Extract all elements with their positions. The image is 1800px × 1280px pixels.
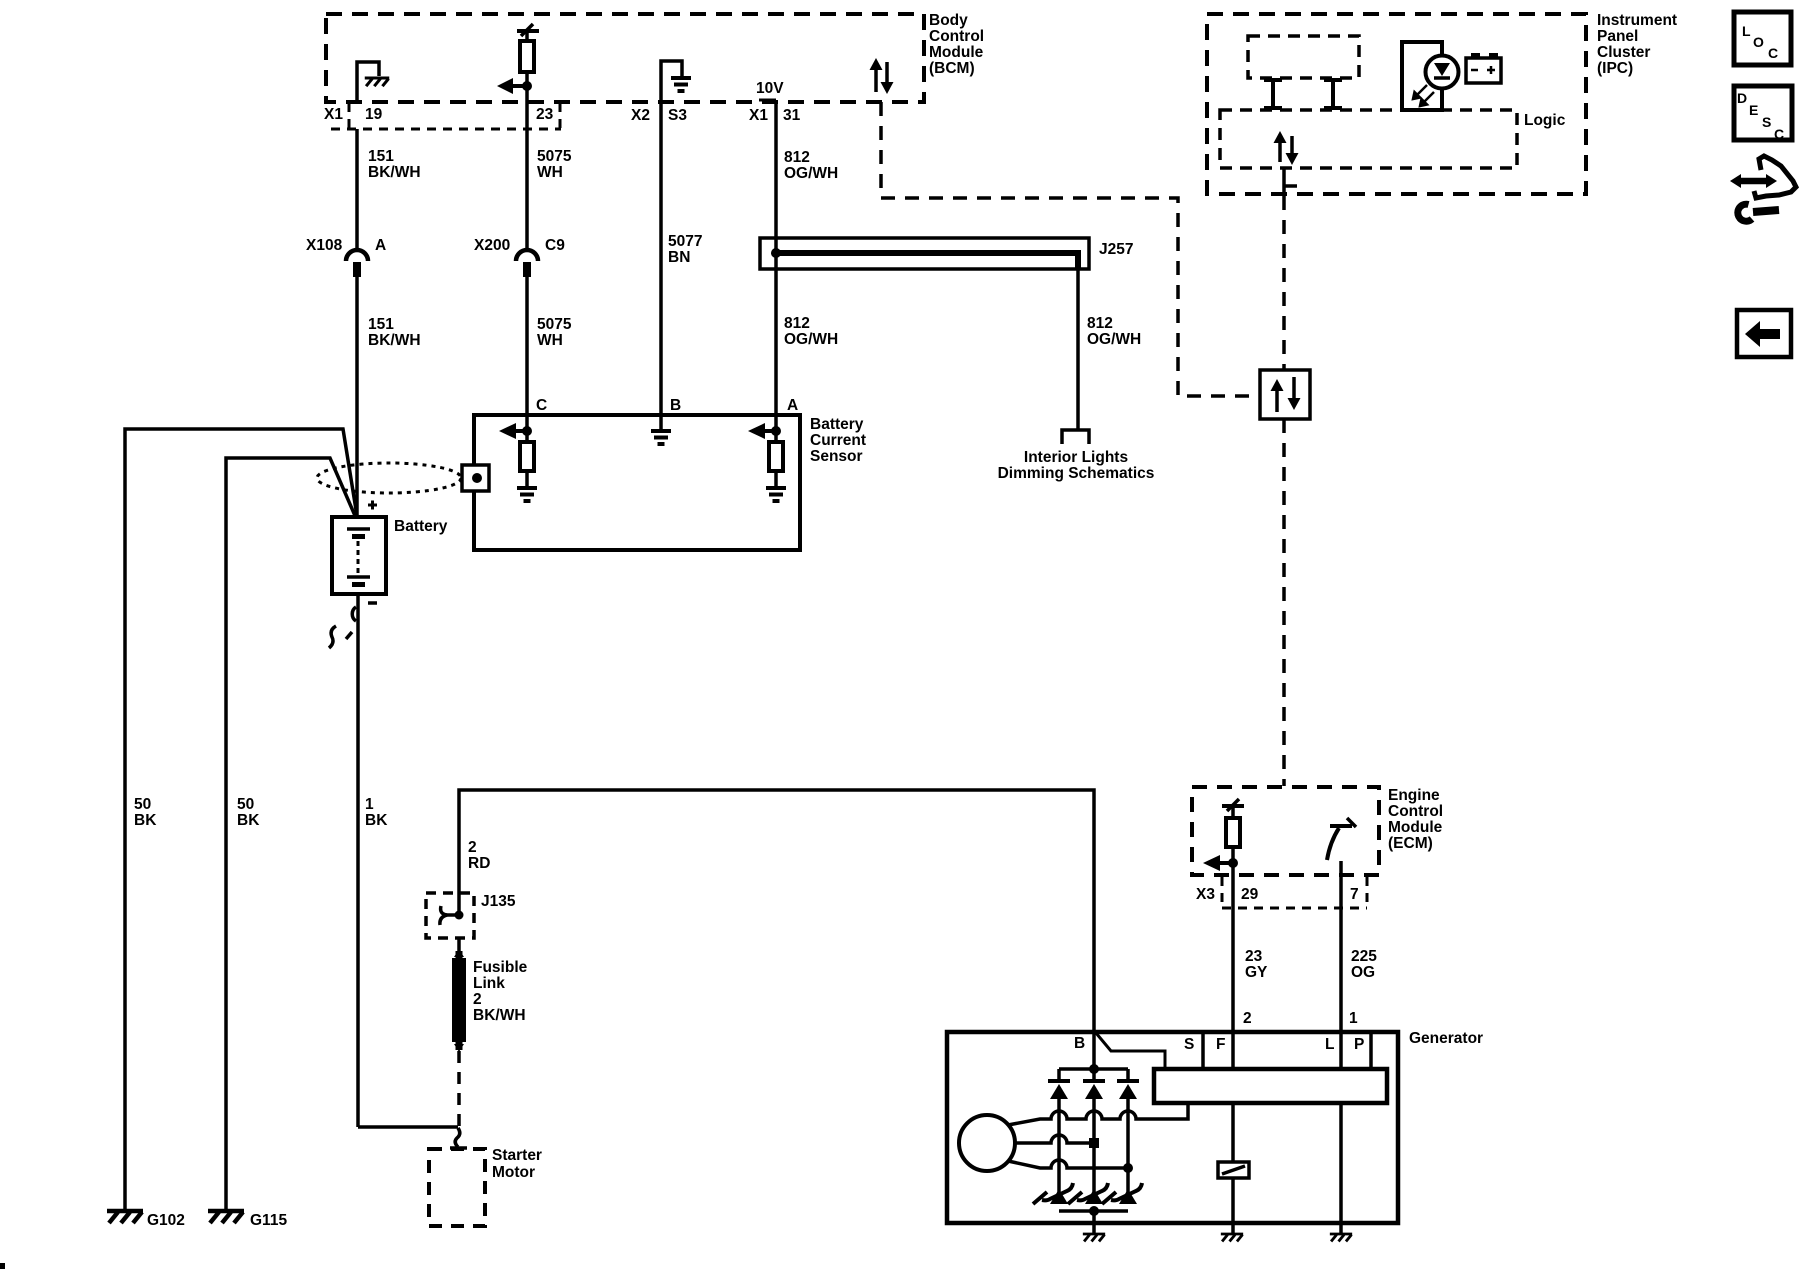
svg-text:J135: J135 [481,893,516,910]
page speck [0,1263,5,1269]
P stub [1369,1032,1373,1069]
svg-text:2: 2 [473,991,482,1008]
svg-text:RD: RD [468,855,490,872]
wire 812 OG/WH (J257 to interior lights) [1076,269,1080,430]
svg-text:O: O [1753,34,1764,50]
stator phase 2 winding line [1015,1135,1094,1143]
svg-text:29: 29 [1241,886,1259,903]
stator phase 3 winding line [1008,1160,1128,1168]
svg-text:G102: G102 [147,1212,185,1229]
dashed wire fusible link to starter [457,1051,461,1127]
svg-text:C: C [1774,126,1784,142]
splice J135 dashed box [426,893,474,938]
svg-text:31: 31 [783,107,801,124]
battery icon (IPC) [1466,53,1501,83]
terminal labels C B A [536,397,798,414]
dashed wire data box to ECM [1282,419,1286,786]
rotor circle [959,1115,1015,1171]
rectifier bottom rail [1059,1209,1128,1213]
clip marks on battery negative wire [329,607,356,648]
svg-text:50: 50 [237,796,254,813]
svg-text:BK: BK [237,812,260,829]
svg-text:Starter: Starter [492,1147,542,1164]
svg-text:OG/WH: OG/WH [784,165,838,182]
svg-text:P: P [1354,1036,1364,1053]
svg-text:Engine: Engine [1388,787,1440,804]
svg-text:F: F [1216,1036,1225,1053]
ECM label [1388,787,1443,852]
wire 5077 BN (BCM S3 to sensor B) [659,102,663,416]
Engine Control Module (ECM) dashed box [1192,787,1379,875]
svg-text:A: A [787,397,798,414]
svg-text:Sensor: Sensor [810,448,863,465]
sensor label [810,416,866,465]
B internal switch link to regulator [1096,1033,1165,1069]
svg-text:23: 23 [1245,948,1263,965]
ground (BCM pin 19 internal) [357,62,389,102]
bidirectional arrows (IPC logic) [1274,131,1299,165]
junction at bottom rail [1089,1206,1099,1216]
label 50 BK right [237,796,260,829]
svg-text:2: 2 [1243,1010,1252,1027]
label 812 OG/WH upper [784,149,838,182]
svg-text:A: A [375,237,386,254]
diagnostic car icon [1730,156,1796,221]
svg-text:L: L [1742,23,1751,39]
diode 1 bottom (avalanche) [1033,1183,1073,1204]
sensor B branch: ground [651,416,671,444]
svg-text:S: S [1184,1036,1194,1053]
svg-text:Current: Current [810,432,866,449]
phase 3 junction [1123,1163,1133,1173]
IPC output wire stub [1284,168,1297,196]
indicator lamp housing [1402,42,1442,110]
connector pin labels row [324,106,801,124]
svg-text:WH: WH [537,332,563,349]
label 225 OG [1351,948,1377,981]
current sensor clamp dashed ellipse [317,463,461,493]
label 812 OG/WH lower-left [784,315,838,348]
svg-text:1: 1 [365,796,374,813]
label 151 BK/WH upper [368,148,421,181]
connector X200 C9 (inline) [516,250,538,277]
label 151 BK/WH lower [368,316,421,349]
svg-text:OG: OG [1351,964,1375,981]
svg-text:E: E [1749,102,1758,118]
svg-text:Instrument: Instrument [1597,12,1677,29]
connector X108 A (inline) [346,250,368,277]
dashed wire IPC to data box [1282,196,1286,369]
Logic dashed box [1220,110,1517,168]
svg-text:Cluster: Cluster [1597,44,1650,61]
J257 bus bar [776,253,1078,270]
svg-text:Dimming Schematics: Dimming Schematics [998,465,1155,482]
fusible link label [473,959,528,1024]
Starter Motor dashed box [429,1149,485,1226]
sensor clamp connector square [462,465,489,491]
wire 151 BK/WH (BCM 19 to X108) [355,129,359,249]
label 5075 WH upper [537,148,572,181]
svg-text:X3: X3 [1196,886,1215,903]
Battery Current Sensor box [474,415,800,550]
svg-text:10V: 10V [756,80,784,97]
label 23 GY [1245,948,1268,981]
terminal labels B S F L P [1074,1035,1364,1053]
voltage regulator block [1154,1069,1387,1103]
svg-text:G115: G115 [250,1212,287,1229]
ground G115 [208,1211,244,1223]
starter motor terminal tick [450,1146,467,1150]
svg-text:Logic: Logic [1524,112,1566,129]
IPC connector post left [1264,80,1282,108]
arrow + junction at ECM resistor [1203,855,1238,871]
wire 2 RD generator B+ feed [459,790,1094,1032]
svg-text:X200: X200 [474,237,510,254]
svg-text:Module: Module [929,44,984,61]
squiggle lead to starter motor [455,1128,460,1147]
S stub [1201,1032,1205,1069]
svg-text:19: 19 [365,106,383,123]
svg-text:50: 50 [134,796,151,813]
BCM label [929,12,984,77]
fusible link 2 BK/WH [452,949,466,1052]
stator phase 1 winding line [1008,1103,1188,1125]
svg-text:7: 7 [1350,886,1359,903]
B wire into rectifier [1092,1032,1096,1069]
X108 labels [306,237,386,254]
svg-text:151: 151 [368,148,394,165]
off-page bracket (interior lights) [1062,430,1089,444]
resistor (BCM internal, pin 23) [517,24,539,102]
label 5075 WH lower [537,316,572,349]
ground G102 [107,1211,143,1223]
svg-text:WH: WH [537,164,563,181]
battery + sign [368,501,377,510]
battery [332,517,386,594]
label 2 RD [468,839,490,872]
svg-text:C: C [536,397,547,414]
wire 50 BK to G115 [226,458,356,1210]
IPC connector post right [1324,80,1342,108]
Generator box [947,1032,1398,1223]
wire 23 GY (ECM 29 to generator F) [1231,875,1235,1069]
svg-text:(ECM): (ECM) [1388,835,1433,852]
svg-text:Control: Control [929,28,984,45]
svg-text:Link: Link [473,975,505,992]
svg-text:X1: X1 [324,106,343,123]
svg-text:23: 23 [536,106,554,123]
label 812 OG/WH right [1087,315,1141,348]
label 5077 BN [668,233,702,266]
svg-text:Motor: Motor [492,1164,535,1181]
svg-text:OG/WH: OG/WH [1087,331,1141,348]
label 50 BK left [134,796,157,829]
ground (BCM pin S3 internal) [661,61,691,102]
back arrow icon box [1737,310,1791,357]
B ground wire [1092,1211,1096,1233]
ground below F [1221,1234,1243,1241]
svg-text:Interior Lights: Interior Lights [1024,449,1128,466]
junction on bus [771,248,781,258]
svg-text:812: 812 [784,315,810,332]
wire J135 to fusible link [457,938,461,956]
wire L through generator [1339,1069,1343,1233]
wire 812 OG/WH (BCM 31 through J257 to sensor A) [774,100,778,416]
10V node (BCM pin 31) [756,80,784,100]
wire 225 OG (ECM 7 to generator L) [1339,875,1343,1069]
battery - sign [368,601,377,605]
svg-text:X108: X108 [306,237,343,254]
svg-text:C9: C9 [545,237,565,254]
svg-text:S: S [1762,114,1771,130]
svg-text:GY: GY [1245,964,1268,981]
wire F through generator [1231,1069,1235,1233]
bidirectional arrows (BCM serial data) [870,58,894,94]
svg-text:151: 151 [368,316,394,333]
data transfer box [1260,370,1310,419]
arrow + junction at BCM resistor [497,78,532,94]
LOC icon box [1734,12,1791,65]
svg-text:BK: BK [365,812,388,829]
resistor (ECM internal, pin 29) [1222,799,1244,875]
svg-text:5077: 5077 [668,233,702,250]
svg-text:L: L [1325,1036,1334,1053]
Starter Motor label [492,1147,542,1181]
LED emission arrows [1413,85,1434,106]
field fuse element [1218,1162,1249,1178]
svg-text:Generator: Generator [1409,1030,1483,1047]
ground below B [1083,1234,1105,1241]
IPC internal dashed sub-box [1248,36,1359,78]
svg-text:812: 812 [784,149,810,166]
X3 pin labels [1196,886,1359,903]
wire 1 BK bottom run [358,1125,458,1129]
svg-text:X1: X1 [749,107,768,124]
svg-text:5075: 5075 [537,148,572,165]
diode 1 top [1048,1069,1070,1203]
svg-text:J257: J257 [1099,241,1133,258]
svg-text:225: 225 [1351,948,1377,965]
svg-text:Fusible: Fusible [473,959,528,976]
DESC icon box [1734,86,1792,142]
svg-text:(BCM): (BCM) [929,60,975,77]
svg-text:2: 2 [468,839,477,856]
svg-text:C: C [1768,45,1778,61]
svg-text:1: 1 [1349,1010,1358,1027]
svg-text:Body: Body [929,12,968,29]
svg-text:BK/WH: BK/WH [368,164,421,181]
svg-text:OG/WH: OG/WH [784,331,838,348]
svg-text:B: B [1074,1035,1085,1052]
svg-text:Panel: Panel [1597,28,1638,45]
svg-text:BN: BN [668,249,690,266]
svg-text:Battery: Battery [810,416,864,433]
svg-text:D: D [1737,90,1747,106]
label 1 BK [365,796,388,829]
dashed wire BCM to data box [881,102,1258,396]
wire 151 BK/WH (X108 to battery +) [355,277,359,519]
wire 1 BK (battery - downward) [356,594,360,1127]
svg-text:Module: Module [1388,819,1443,836]
diode 3 top [1117,1069,1139,1203]
arrows in data box [1271,377,1301,412]
diode 2 top [1083,1069,1105,1203]
splice symbol in J135 [440,893,464,925]
svg-text:BK: BK [134,812,157,829]
svg-text:812: 812 [1087,315,1113,332]
wire 5075 WH (BCM 23 to X200) [525,102,529,249]
junction at rectifier top rail [1089,1064,1099,1074]
svg-text:B: B [670,397,681,414]
svg-text:Control: Control [1388,803,1443,820]
sensor A branch: arrow, resistor, ground [748,416,786,501]
sensor C branch: arrow, resistor, ground [499,416,537,501]
phase 2 junction [1089,1138,1099,1148]
connector X3 dashed outline [1222,877,1367,908]
Interior Lights Dimming Schematics label [998,449,1155,482]
wire 5075 WH (X200 to sensor C) [525,277,529,416]
svg-text:(IPC): (IPC) [1597,60,1633,77]
svg-text:X2: X2 [631,107,650,124]
svg-text:Battery: Battery [394,518,448,535]
svg-text:S3: S3 [668,107,687,124]
svg-text:BK/WH: BK/WH [368,332,421,349]
connector X1 dashed outline (pins 19/23) [331,103,561,129]
diode 2 bottom (avalanche) [1068,1183,1108,1204]
IPC label [1597,12,1677,77]
svg-text:BK/WH: BK/WH [473,1007,526,1024]
svg-text:5075: 5075 [537,316,572,333]
Instrument Panel Cluster (IPC) dashed box [1207,14,1586,194]
splice pack J257 box [760,238,1089,269]
rectifier top rail [1059,1067,1128,1071]
ground below L [1330,1234,1352,1241]
LED indicator (battery lamp) [1426,56,1459,111]
diode 3 bottom (avalanche) [1102,1183,1142,1204]
wire 50 BK to G102 [125,429,357,1210]
X200 labels [474,237,565,254]
switch contact (ECM internal, pin 7) [1327,818,1356,875]
Body Control Module (BCM) dashed box [326,14,924,102]
